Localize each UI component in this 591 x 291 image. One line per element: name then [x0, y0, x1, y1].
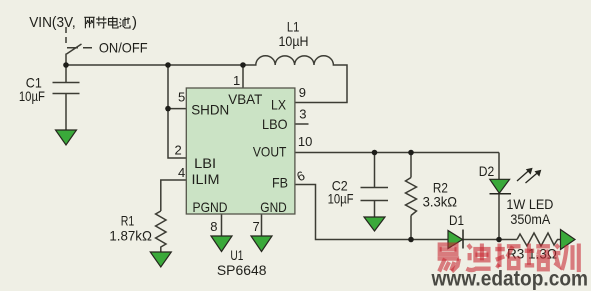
wire C2 top lead	[374, 153, 376, 188]
svg-text:7: 7	[253, 219, 260, 234]
LED D2	[490, 179, 510, 193]
svg-text:10µF: 10µF	[328, 191, 354, 207]
switch dashed link to label	[67, 47, 92, 49]
wire switch lead dashed	[65, 27, 67, 44]
wire D2 cathode lead	[498, 194, 500, 240]
svg-text:U1: U1	[230, 247, 243, 263]
wire top rail VIN	[66, 64, 243, 66]
svg-text:9: 9	[299, 85, 306, 100]
svg-text:10µH: 10µH	[279, 33, 309, 49]
svg-text:10: 10	[298, 134, 312, 149]
inductor L1	[243, 56, 347, 103]
svg-text:LBI: LBI	[194, 155, 216, 171]
resistor R2 zigzag	[406, 178, 417, 216]
wire pin8 PGND stub	[221, 214, 223, 236]
wire LBO stub pin3	[295, 123, 309, 125]
wire C2 bottom lead	[374, 201, 376, 218]
svg-text:VBAT: VBAT	[228, 91, 262, 107]
wire pin1 VBAT stub	[242, 65, 244, 88]
svg-text:VIN(3V,: VIN(3V,	[29, 14, 75, 31]
wire D2 anode lead	[498, 153, 500, 180]
pin numbers	[175, 73, 313, 234]
node F r2 tap	[408, 150, 414, 156]
svg-text:GND: GND	[260, 199, 287, 215]
capacitor C2 plates	[361, 187, 389, 189]
char yi	[438, 245, 460, 272]
svg-text:D2: D2	[479, 163, 495, 179]
svg-text:VOUT: VOUT	[253, 144, 287, 160]
svg-text:LBO: LBO	[262, 116, 288, 132]
label chinese two batteries	[84, 17, 130, 29]
output arrow	[561, 230, 576, 250]
svg-text:1: 1	[233, 73, 240, 88]
svg-text:D1: D1	[449, 212, 464, 228]
wire switch to node	[65, 54, 67, 66]
resistor R3 zigzag	[517, 233, 561, 246]
svg-text:SHDN: SHDN	[191, 102, 229, 118]
capacitor C1 plates	[53, 82, 80, 84]
char liang	[84, 17, 95, 28]
svg-text:LX: LX	[271, 97, 287, 113]
node C vbat tap	[240, 62, 246, 68]
wire SHDN/LBI vertical	[168, 65, 186, 158]
svg-text:www.edatop.com: www.edatop.com	[431, 267, 588, 291]
node A VIN switch	[63, 62, 69, 68]
IC pin labels	[191, 91, 288, 215]
watermark red chinese	[438, 244, 579, 273]
svg-text:4: 4	[178, 165, 185, 180]
svg-text:1W LED: 1W LED	[506, 196, 553, 212]
wire FB stub pin6	[295, 185, 448, 240]
svg-text:FB: FB	[272, 175, 288, 191]
switch SW ON/OFF blade	[67, 44, 82, 54]
char dian	[109, 17, 119, 29]
node E c2 tap	[372, 150, 378, 156]
wire R2 top lead	[410, 153, 412, 178]
svg-text:5: 5	[178, 90, 185, 105]
svg-text:8: 8	[210, 219, 217, 234]
wire VOUT rail pin10	[295, 152, 499, 154]
char pei	[525, 244, 550, 270]
svg-text:3.3kΩ: 3.3kΩ	[423, 194, 458, 210]
svg-text:SP6648: SP6648	[217, 262, 267, 278]
char xun	[555, 244, 579, 273]
wire C1 bottom lead	[65, 94, 67, 131]
resistor R1 zigzag	[156, 211, 166, 252]
node H d2 bottom	[496, 237, 502, 243]
wire C1 top lead	[65, 65, 67, 83]
label VIN(3V	[29, 14, 75, 31]
op-amp U1 IC body SP6648	[186, 88, 295, 214]
node G r2 bottom	[408, 237, 414, 243]
ground symbol below C2	[364, 217, 385, 231]
svg-text:1.87kΩ: 1.87kΩ	[109, 228, 151, 244]
node D shdn pin	[165, 106, 171, 112]
ground symbol below pin8	[211, 236, 232, 252]
LED D2 light arrows	[517, 168, 541, 183]
svg-text:R1: R1	[121, 213, 135, 229]
svg-text:350mA: 350mA	[510, 211, 550, 227]
wire SHDN stub pin5	[168, 108, 186, 110]
svg-text:ON/OFF: ON/OFF	[99, 40, 148, 56]
svg-text:): )	[132, 14, 137, 31]
ground symbol below C1	[56, 130, 77, 145]
node B shdn tap	[165, 62, 171, 68]
svg-text:10µF: 10µF	[19, 88, 45, 104]
char jie	[96, 17, 107, 29]
diode D1	[448, 231, 463, 249]
wire ILIM stub pin4	[161, 180, 187, 211]
svg-text:3: 3	[299, 107, 306, 122]
svg-text:ILIM: ILIM	[192, 171, 220, 187]
char chi	[120, 17, 131, 28]
wire pin7 GND stub	[261, 214, 263, 236]
svg-text:PGND: PGND	[193, 199, 228, 215]
ground symbol below pin7	[251, 236, 272, 252]
ground symbol below R1	[150, 252, 171, 267]
char tuo	[495, 244, 520, 269]
char di	[466, 244, 490, 271]
wire D1 cathode to node	[463, 239, 517, 241]
svg-text:2: 2	[175, 143, 182, 158]
wire R2 bottom lead	[410, 216, 412, 240]
